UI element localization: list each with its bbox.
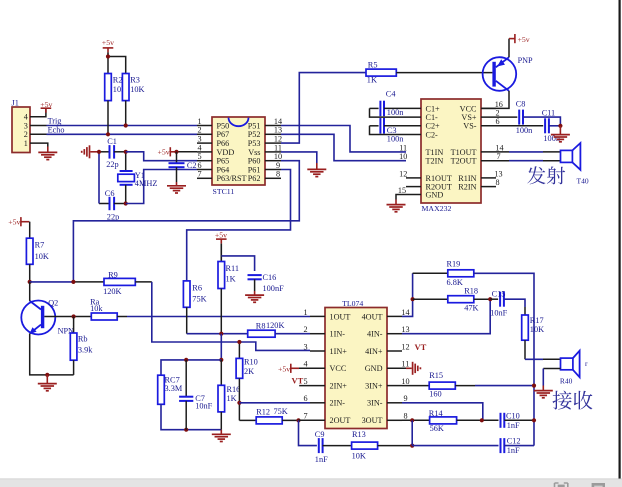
svg-text:Vss: Vss [248, 148, 260, 157]
svg-text:10K: 10K [35, 252, 49, 261]
node R7/collector [28, 280, 32, 284]
svg-text:8: 8 [495, 178, 499, 187]
svg-text:VDD: VDD [217, 148, 235, 157]
svg-text:6: 6 [197, 161, 201, 170]
svg-text:+5v: +5v [102, 38, 114, 47]
svg-text:4: 4 [197, 143, 201, 152]
svg-text:4IN+: 4IN+ [365, 347, 383, 356]
svg-text:7: 7 [496, 152, 500, 161]
STC11 pin 6 stub [197, 169, 212, 171]
node 2OUT/C9 [296, 418, 300, 422]
svg-text:R3: R3 [130, 75, 140, 84]
svg-text:1IN+: 1IN+ [330, 347, 348, 356]
wire P51 to T1IN [281, 126, 406, 152]
svg-text:13: 13 [274, 126, 282, 135]
resistor R3 [122, 74, 129, 101]
svg-text:R14: R14 [429, 409, 444, 418]
wire C9 branch [299, 420, 317, 445]
svg-text:R15: R15 [429, 371, 443, 380]
svg-text:2: 2 [495, 109, 499, 118]
svg-text:VS-: VS- [463, 122, 476, 131]
power +5v (R7) [20, 217, 22, 226]
power +5v (J1) [41, 107, 52, 109]
svg-text:14: 14 [274, 117, 282, 126]
STC11 pin 7 stub [197, 177, 212, 179]
MAX232 R2OUT stub [406, 186, 421, 188]
svg-text:Trig: Trig [48, 117, 62, 126]
wire R40 lower to ground [543, 368, 560, 370]
node base/Ra/Rb [72, 314, 76, 318]
wire emitter down [30, 334, 74, 375]
wire C16 branch [221, 256, 254, 271]
svg-text:4: 4 [24, 113, 28, 122]
capacitor C7 [185, 360, 187, 397]
transistor Q2 NPN [21, 301, 55, 335]
wire R17 to R40 [524, 340, 526, 359]
resistor R10 [238, 342, 240, 358]
capacitor C4 [370, 107, 379, 109]
node emitter/ground [45, 373, 49, 377]
resistor RC7 [158, 375, 165, 404]
svg-text:Q2: Q2 [48, 299, 58, 308]
svg-text:1nF: 1nF [507, 421, 520, 430]
svg-text:10: 10 [399, 152, 407, 161]
svg-text:3OUT: 3OUT [362, 416, 383, 425]
resistor R14 [402, 419, 430, 421]
wire base [44, 316, 91, 318]
svg-text:GND: GND [426, 190, 444, 199]
svg-text:10K: 10K [130, 85, 144, 94]
wire R8 to 1IN- [275, 333, 310, 335]
wire P60 long route [73, 161, 299, 282]
J1 pin 4 wire to +5v [30, 109, 46, 117]
node R11/R8 [219, 332, 223, 336]
capacitor C1 [99, 151, 110, 153]
svg-text:3: 3 [303, 342, 307, 351]
power +5v (R2/R3) [103, 47, 114, 49]
resistor R18 [413, 298, 448, 300]
svg-text:8: 8 [276, 170, 280, 179]
TL074 pin14 wire [387, 315, 402, 317]
svg-text:1K: 1K [367, 75, 377, 84]
STC11 pin 11 stub [265, 151, 281, 153]
svg-text:4: 4 [303, 360, 307, 369]
ground (MAX232) [387, 204, 406, 206]
wire C1 to C6 left [98, 152, 100, 204]
TL074 pin3 stub [310, 350, 325, 352]
STC11 pin 3 stub [197, 142, 212, 144]
MAX232 VS- wire + capacitor C11 [481, 125, 543, 127]
svg-text:R16: R16 [227, 385, 241, 394]
svg-text:8: 8 [403, 412, 407, 421]
resistor R8 [248, 330, 275, 337]
svg-text:11: 11 [274, 143, 282, 152]
resistor R15 [402, 385, 429, 387]
svg-text:12: 12 [274, 135, 282, 144]
TL074 pin6 stub [310, 402, 325, 404]
svg-text:P66: P66 [217, 139, 230, 148]
svg-text:C2+: C2+ [426, 122, 441, 131]
wire T2OUT to T40 [481, 160, 509, 162]
svg-text:C4: C4 [386, 90, 397, 99]
MAX232 R2IN stub [481, 186, 496, 188]
STC11 pin 4 stub [197, 151, 212, 153]
svg-text:C1-: C1- [426, 113, 439, 122]
wire P61 to R6 [187, 170, 291, 281]
svg-text:10nF: 10nF [195, 402, 212, 411]
node R14/pin9 [480, 418, 484, 422]
wire C15 to R17 [504, 299, 525, 307]
resistor Rb [73, 317, 75, 334]
node P60/R9 [71, 280, 75, 284]
svg-text:47K: 47K [464, 304, 478, 313]
speaker T40 [561, 150, 573, 162]
svg-text:T2IN: T2IN [426, 157, 444, 166]
resistor R5 [366, 69, 396, 76]
svg-text:VCC: VCC [460, 104, 477, 113]
svg-text:9: 9 [276, 161, 280, 170]
svg-text:2: 2 [197, 126, 201, 135]
svg-text:6: 6 [303, 394, 307, 403]
capacitor C2 [176, 152, 178, 163]
resistor R9 [104, 278, 135, 285]
svg-text:T2OUT: T2OUT [451, 157, 477, 166]
svg-text:+5v: +5v [215, 230, 227, 239]
node C1 left [97, 150, 101, 154]
ground (C16) [245, 294, 264, 296]
wire R5 to base [396, 72, 492, 74]
svg-text:1nF: 1nF [315, 455, 328, 464]
TL074 pin10 stub [387, 385, 402, 387]
svg-text:R1OUT: R1OUT [426, 174, 452, 183]
STC11 pin 5 stub [197, 160, 212, 162]
wire R3 bottom [125, 101, 127, 126]
wire Vss to ground [281, 152, 317, 163]
svg-text:1nF: 1nF [507, 446, 520, 455]
svg-text:VT: VT [415, 342, 427, 352]
svg-text:3: 3 [24, 121, 28, 130]
op-amp TL074 [325, 308, 387, 429]
svg-text:+5v: +5v [518, 35, 530, 44]
svg-text:2IN+: 2IN+ [330, 382, 348, 391]
svg-text:C10: C10 [506, 412, 520, 421]
node C10/net [532, 418, 536, 422]
TL074 pin2 stub [310, 333, 325, 335]
svg-text:R19: R19 [447, 260, 461, 269]
speaker R40 [561, 358, 573, 370]
svg-text:+5v: +5v [158, 148, 170, 157]
toolbar icon 2 [592, 483, 605, 487]
svg-text:P60: P60 [248, 157, 261, 166]
svg-text:Echo: Echo [48, 126, 65, 135]
sheet right border line [618, 0, 620, 479]
node R10 top [237, 340, 241, 344]
svg-text:+5v: +5v [8, 218, 20, 227]
svg-text:P52: P52 [248, 130, 261, 139]
ground (TL074 pin11, sideways) [412, 362, 414, 375]
svg-text:P65: P65 [217, 157, 230, 166]
MAX232 R1IN stub [481, 177, 496, 179]
svg-text:100n: 100n [387, 108, 404, 117]
svg-text:MAX232: MAX232 [422, 204, 452, 213]
resistor R2 [105, 74, 112, 101]
MAX232 VS+ wire + capacitor C8 [481, 116, 517, 118]
J1 pin 2 stub [30, 133, 47, 135]
svg-text:10: 10 [401, 377, 409, 386]
svg-text:R2: R2 [113, 75, 123, 84]
wire P52 to T2IN [281, 134, 406, 160]
node VDD/C2 [174, 150, 178, 154]
svg-text:+5v: +5v [278, 364, 290, 373]
STC11 pin 2 stub [197, 133, 212, 135]
svg-text:R6: R6 [192, 284, 202, 293]
capacitor C10 [500, 413, 502, 428]
svg-text:13: 13 [401, 325, 409, 334]
svg-text:R17: R17 [530, 316, 544, 325]
svg-text:C1+: C1+ [426, 104, 441, 113]
capacitor C9 [318, 438, 320, 453]
svg-text:R13: R13 [352, 430, 366, 439]
svg-text:1: 1 [24, 139, 28, 148]
node R3/Trig [124, 123, 128, 127]
svg-text:2K: 2K [244, 367, 254, 376]
STC11 pin 10 stub [265, 160, 281, 162]
svg-text:R8: R8 [256, 322, 266, 331]
TL074 pin13 wire [387, 333, 402, 335]
svg-text:C16: C16 [263, 273, 277, 282]
wire T1OUT to T40 [481, 151, 509, 153]
svg-text:R12: R12 [256, 408, 270, 417]
STC11 pin 12 stub [265, 142, 281, 144]
svg-text:2: 2 [303, 325, 307, 334]
svg-text:6.8K: 6.8K [447, 278, 463, 287]
svg-text:75K: 75K [192, 295, 206, 304]
svg-text:2IN-: 2IN- [330, 399, 346, 408]
bottom toolbar [0, 479, 622, 487]
svg-text:9: 9 [403, 394, 407, 403]
wire R6 bottom [186, 307, 188, 333]
svg-text:56K: 56K [430, 424, 444, 433]
svg-text:10K: 10K [352, 451, 366, 460]
STC11 pin 8 stub [265, 177, 281, 179]
wire +5v to R3 top [108, 57, 126, 74]
power +5v (R11) [216, 238, 227, 240]
wire R7 bottom [29, 264, 31, 282]
wire R9 to 1IN+ [135, 281, 152, 283]
wire collector to VCC [481, 91, 509, 109]
wire crystal bottom to P64 [126, 170, 197, 204]
svg-text:T40: T40 [577, 177, 589, 186]
svg-text:4OUT: 4OUT [362, 312, 383, 321]
svg-text:P64: P64 [217, 165, 230, 174]
resistor R11 [218, 262, 225, 289]
ground (crystal, sideways) [89, 145, 91, 158]
resistor R13 [352, 442, 378, 449]
svg-text:P61: P61 [248, 165, 261, 174]
resistor R19 [413, 272, 448, 274]
svg-text:11: 11 [399, 143, 407, 152]
svg-text:13: 13 [494, 169, 502, 178]
wire R11 bottom [220, 289, 222, 334]
svg-text:PNP: PNP [518, 56, 533, 65]
TL074 pin11 ground stub [387, 367, 406, 369]
ground (Vss) [307, 168, 326, 170]
MCU U? STC11 [212, 117, 265, 185]
node crystal bottom [124, 201, 128, 205]
node rail/R16 [219, 358, 223, 362]
svg-text:P62: P62 [248, 174, 261, 183]
wire collector up [29, 282, 31, 301]
node crystal top [124, 150, 128, 154]
svg-text:C11: C11 [542, 108, 556, 117]
capacitor C12 [412, 445, 498, 447]
svg-text:C9: C9 [315, 430, 325, 439]
svg-text:1K: 1K [226, 274, 236, 283]
STC11 pin 14 stub [265, 125, 281, 127]
capacitor C15 [490, 298, 498, 300]
J1 pin 3 stub [30, 125, 47, 127]
svg-text:6: 6 [495, 117, 499, 126]
svg-text:10: 10 [274, 152, 282, 161]
svg-text:15: 15 [398, 186, 406, 195]
wire RC7 rail top [161, 360, 221, 375]
node pin8/R13 [410, 418, 414, 422]
svg-text:3IN-: 3IN- [367, 399, 383, 408]
wire R13 up to pin8 [411, 420, 413, 445]
TL074 pin8 stub [387, 419, 402, 421]
TL074 pin9 wire [387, 402, 402, 404]
ground (C2) [176, 182, 178, 186]
svg-text:100n: 100n [387, 135, 404, 144]
MAX232 R1OUT stub [406, 177, 421, 179]
svg-text:5: 5 [303, 377, 307, 386]
svg-text:120K: 120K [103, 287, 121, 296]
ground (rail) [220, 430, 222, 434]
svg-text:16: 16 [495, 100, 503, 109]
svg-text:C2: C2 [187, 161, 197, 170]
connector J1 [12, 107, 30, 153]
wire Ra to 1OUT [117, 316, 127, 318]
svg-text:1IN-: 1IN- [330, 330, 346, 339]
wire Echo line [47, 133, 198, 135]
svg-text:VCC: VCC [330, 364, 347, 373]
svg-text:P51: P51 [248, 121, 261, 130]
svg-text:C3: C3 [387, 126, 397, 135]
svg-text:10nF: 10nF [490, 308, 507, 317]
svg-text:10k: 10k [90, 304, 103, 313]
svg-text:7: 7 [197, 170, 201, 179]
svg-text:R11: R11 [226, 264, 240, 273]
svg-text:C1: C1 [107, 137, 117, 146]
svg-text:11: 11 [402, 360, 410, 369]
label transmit [527, 166, 565, 184]
J1 pin 1 wire [30, 143, 48, 146]
svg-text:+5v: +5v [40, 100, 52, 109]
wire P53 up to R5 [281, 73, 366, 144]
capacitor C3 [370, 125, 379, 127]
svg-text:J1: J1 [12, 99, 19, 108]
resistor R17 [522, 315, 529, 340]
ground (R40) [534, 390, 553, 392]
svg-text:P67: P67 [217, 130, 230, 139]
power +5v (VDD) [169, 147, 171, 156]
STC11 pin 13 stub [265, 133, 281, 135]
svg-text:12: 12 [401, 342, 409, 351]
svg-text:R10: R10 [244, 358, 258, 367]
wire Trig line [47, 125, 198, 127]
svg-text:R5: R5 [368, 61, 378, 70]
svg-text:100nF: 100nF [263, 284, 285, 293]
svg-text:T1OUT: T1OUT [451, 148, 477, 157]
node R15/net [532, 384, 536, 388]
svg-text:GND: GND [365, 364, 383, 373]
svg-text:22p: 22p [106, 160, 118, 169]
svg-text:4IN-: 4IN- [367, 330, 383, 339]
svg-text:Rb: Rb [78, 335, 88, 344]
svg-text:T1IN: T1IN [426, 148, 444, 157]
node +5v/R2/R3 [106, 54, 110, 58]
power +5v (PNP) [514, 34, 516, 43]
svg-text:C8: C8 [516, 99, 526, 108]
STC11 pin 1 stub [197, 125, 212, 127]
svg-text:160: 160 [429, 389, 441, 398]
svg-text:4MHZ: 4MHZ [135, 179, 158, 188]
node R2/Echo [106, 132, 110, 136]
svg-text:1: 1 [197, 117, 201, 126]
svg-text:3IN+: 3IN+ [365, 382, 383, 391]
svg-text:C15: C15 [492, 289, 506, 298]
MAX232 GND wire [396, 195, 421, 200]
svg-text:VT: VT [292, 375, 304, 385]
svg-text:R40: R40 [560, 376, 573, 385]
wire R2 bottom [107, 101, 109, 135]
TL074 pin1 stub [310, 315, 325, 317]
STC11 pin 9 stub [265, 169, 281, 171]
ground (J1) [38, 151, 57, 153]
TL074 pin12 stub + VT [387, 350, 402, 352]
resistor R6 [183, 281, 190, 307]
wire crystal top to P65 [126, 152, 197, 161]
wire R16 chain [220, 334, 222, 360]
svg-text:7: 7 [303, 412, 307, 421]
transistor PNP [483, 57, 517, 91]
TL074 pin7 stub [299, 419, 326, 421]
power +5v (TL074 VCC) [290, 364, 292, 373]
svg-text:10K: 10K [530, 325, 544, 334]
TL074 pin5 stub [299, 385, 325, 387]
svg-text:P63/RST: P63/RST [217, 174, 247, 183]
svg-text:3.3M: 3.3M [165, 384, 183, 393]
svg-text:STC11: STC11 [213, 187, 235, 196]
node R18 tap [411, 297, 415, 301]
svg-text:TL074: TL074 [342, 299, 363, 308]
svg-text:R18: R18 [464, 287, 478, 296]
resistor R7 [26, 238, 33, 264]
svg-text:1OUT: 1OUT [330, 312, 351, 321]
svg-text:75K: 75K [274, 407, 288, 416]
MAX232 VCC stub [481, 107, 496, 109]
svg-text:14: 14 [401, 308, 409, 317]
svg-text:14: 14 [495, 143, 503, 152]
svg-text:R7: R7 [35, 241, 45, 250]
node C7 bottom [184, 428, 188, 432]
toolbar icon 1 [555, 483, 568, 487]
resistor R12 [239, 419, 256, 421]
crystal Y1 [125, 152, 127, 171]
svg-text:3.9k: 3.9k [78, 346, 93, 355]
ground (C8/C11) [559, 126, 561, 134]
svg-text:120K: 120K [266, 321, 284, 330]
